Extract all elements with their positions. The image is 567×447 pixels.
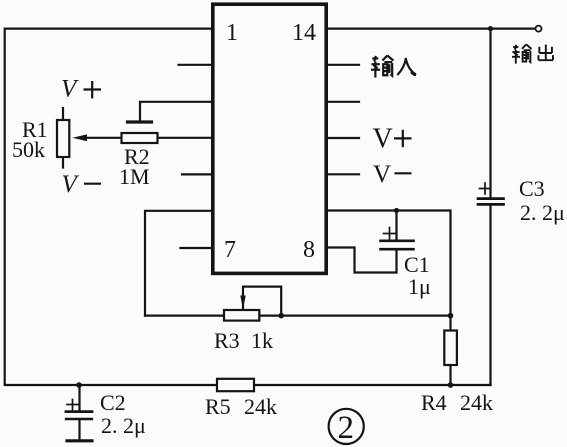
svg-text:24k: 24k bbox=[244, 394, 277, 419]
svg-text:C2: C2 bbox=[100, 390, 126, 415]
svg-text:V: V bbox=[373, 124, 393, 155]
svg-text:2. 2μ: 2. 2μ bbox=[520, 200, 565, 225]
svg-text:7: 7 bbox=[224, 237, 236, 263]
svg-text:1M: 1M bbox=[119, 164, 150, 189]
svg-text:R4: R4 bbox=[421, 390, 447, 415]
svg-text:V: V bbox=[373, 161, 391, 188]
svg-text:2: 2 bbox=[338, 410, 355, 446]
svg-text:1k: 1k bbox=[251, 328, 273, 353]
svg-text:V: V bbox=[61, 76, 79, 103]
svg-text:C3: C3 bbox=[519, 176, 545, 201]
svg-text:R3: R3 bbox=[214, 328, 240, 353]
svg-text:14: 14 bbox=[292, 20, 316, 46]
svg-text:2. 2μ: 2. 2μ bbox=[101, 413, 146, 438]
svg-text:1: 1 bbox=[226, 20, 238, 46]
svg-text:1μ: 1μ bbox=[408, 274, 431, 299]
svg-text:R5: R5 bbox=[205, 394, 231, 419]
svg-text:8: 8 bbox=[303, 237, 315, 263]
svg-text:50k: 50k bbox=[12, 137, 45, 162]
svg-text:24k: 24k bbox=[460, 390, 493, 415]
svg-text:V: V bbox=[62, 171, 80, 198]
